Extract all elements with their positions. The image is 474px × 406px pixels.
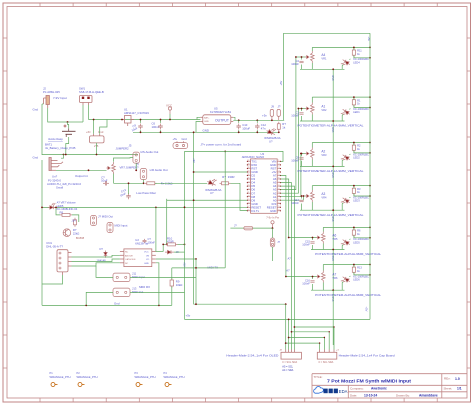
wire riser x166 <box>166 199 168 245</box>
junction x225 top <box>224 151 226 153</box>
svg-text:DHL-05-A-T?: DHL-05-A-T? <box>46 245 63 249</box>
svg-text:GND: GND <box>331 127 334 133</box>
frame tick left <box>3 169 7 171</box>
junction x196 bottom <box>195 303 197 305</box>
svg-text:BC808: BC808 <box>76 236 85 240</box>
jumper J7 <box>91 216 97 226</box>
svg-text:+5v: +5v <box>186 314 191 318</box>
capacitor C10 <box>236 124 241 130</box>
wire arduino d12 left <box>185 206 248 208</box>
frame tick bottom <box>304 398 306 402</box>
junction led 5 <box>353 227 355 229</box>
frame tick left <box>3 301 7 303</box>
svg-text:GND: GND <box>331 216 334 222</box>
resistor R9 <box>170 278 174 288</box>
wire switch left pin <box>82 105 84 122</box>
wire gnd chain bottom <box>332 290 334 345</box>
junction gnd C6 <box>160 131 162 133</box>
regulator U4 7805 <box>90 134 105 143</box>
junction y305 b <box>158 305 160 307</box>
pot block 5 rails <box>289 227 370 249</box>
svg-text:0 = SCL SDA: 0 = SCL SDA <box>319 361 334 364</box>
resistor R13 <box>352 265 355 274</box>
junction vcc below <box>272 227 274 229</box>
svg-text:19: 19 <box>247 199 249 201</box>
capacitor C8 <box>299 158 303 160</box>
svg-text:10uF: 10uF <box>101 179 108 183</box>
svg-text:MIDI Out: MIDI Out <box>132 290 143 294</box>
jumper J5 <box>133 152 140 163</box>
svg-text:9: 9 <box>278 188 279 190</box>
pin header J9 <box>270 109 273 120</box>
LED D5 midi <box>48 203 56 209</box>
regulator U1 AMS1117 <box>122 116 134 127</box>
svg-text:Header-Male-2.54_1x4 For OLED: Header-Male-2.54_1x4 For OLED <box>226 353 278 357</box>
svg-text:+5v: +5v <box>367 37 371 42</box>
junction pot1 wiper <box>301 56 303 58</box>
junction pot1 bundle <box>295 56 297 58</box>
svg-text:ARDUINO_NANO: ARDUINO_NANO <box>242 155 265 159</box>
frame tick left <box>3 268 7 270</box>
svg-text:100nF: 100nF <box>291 62 299 66</box>
svg-text:1/1: 1/1 <box>457 387 462 391</box>
potentiometer RV6 <box>316 271 325 283</box>
svg-text:3: 3 <box>278 167 279 169</box>
capacitor C4 <box>299 61 303 63</box>
wire branches to header2 <box>294 327 334 350</box>
svg-text:A1: A1 <box>321 105 325 109</box>
wire led branch 6 <box>342 265 370 291</box>
junction C13 <box>128 182 130 184</box>
diode D1 midi protection <box>104 251 107 258</box>
junction pot5 bundle <box>288 237 290 239</box>
wire gnd vertical to header <box>285 304 287 349</box>
wire mid rail x184 +9v <box>184 151 186 319</box>
resistor R1 <box>352 98 355 107</box>
wire C9 top <box>140 120 142 123</box>
frame tick left <box>3 202 7 204</box>
frame tick right <box>467 235 471 237</box>
svg-text:POTENTIOMETER-ALPHA-9MM_VERTIC: POTENTIOMETER-ALPHA-9MM_VERTICAL <box>315 293 381 297</box>
svg-text:WRANGLE_PTH: WRANGLE_PTH <box>50 375 71 379</box>
resistor R7 <box>277 122 280 132</box>
junction gnd C9 <box>140 131 142 133</box>
wire C12 top lead <box>256 120 258 123</box>
junction pot2 top <box>369 96 371 98</box>
svg-text:1.0: 1.0 <box>455 377 460 381</box>
svg-text:+IN: +IN <box>86 130 90 134</box>
svg-text:7 Pot Mozzi FM Synth w/MIDI In: 7 Pot Mozzi FM Synth w/MIDI Input <box>327 378 412 383</box>
svg-text:LED3: LED3 <box>353 199 360 203</box>
wire mid rail x196 <box>195 259 197 304</box>
pot block 3 rails <box>300 143 370 167</box>
svg-text:I2S Audio Out: I2S Audio Out <box>141 150 159 154</box>
junction gnd chain 4 <box>332 209 334 211</box>
switch SW1 <box>80 96 93 106</box>
junction x166 d2 <box>166 244 168 246</box>
svg-text:GND: GND <box>270 209 276 213</box>
svg-text:+5v: +5v <box>173 137 178 141</box>
wire C6 bot <box>160 130 162 132</box>
svg-text:LED5: LED5 <box>353 240 360 244</box>
audio jack J1 <box>49 158 63 171</box>
wire jack plus down <box>48 108 68 122</box>
DIN-5 connector CN1 <box>57 250 72 275</box>
frame tick right <box>467 169 471 171</box>
svg-text:CATHODE: CATHODE <box>125 258 136 261</box>
potentiometer RV4 <box>305 190 314 202</box>
svg-text:12: 12 <box>278 199 280 201</box>
svg-text:0 = SCL SDA: 0 = SCL SDA <box>282 361 297 364</box>
wire reg gnd down <box>96 143 98 155</box>
svg-text:A6: A6 <box>332 234 336 238</box>
junction U1 in <box>121 119 123 121</box>
frame tick left <box>3 37 7 39</box>
header H2 for cap board <box>317 350 337 360</box>
svg-text:P2: P2 <box>77 371 81 375</box>
junction C10 top <box>238 119 240 121</box>
svg-text:100nF: 100nF <box>291 114 299 118</box>
wire mid rail x193 gnd <box>193 132 195 304</box>
junction C10 bot <box>238 131 240 133</box>
junction opto vo <box>195 258 197 260</box>
resistor R2 <box>352 143 355 152</box>
wire VCC stub <box>169 114 171 120</box>
wire r8 right <box>72 215 79 222</box>
frame tick left <box>3 235 7 237</box>
CN1 pin circles <box>59 252 61 269</box>
wire battery minus lead <box>66 137 69 155</box>
svg-text:VO: VO <box>146 259 149 261</box>
wire arduino d11 left <box>167 199 247 201</box>
frame tick bottom <box>105 398 107 402</box>
barrel jack J2 <box>44 96 50 109</box>
svg-text:VR4: VR4 <box>321 195 327 199</box>
svg-text:17: 17 <box>247 206 249 208</box>
wire arduino analog fanout <box>281 57 296 190</box>
junction jack gnd feed <box>63 154 65 156</box>
svg-text:J9: J9 <box>271 105 274 109</box>
potentiometer RV5 <box>316 232 325 244</box>
junction C12 bot <box>256 131 258 133</box>
svg-text:J? MIDI Out: J? MIDI Out <box>98 215 113 219</box>
capacitor C7 <box>103 181 109 186</box>
wire r10 left <box>163 244 165 251</box>
junction y304 end <box>285 303 287 305</box>
junction pot5 top <box>369 227 371 229</box>
wire gnd chain 5 <box>332 250 334 291</box>
wire jack to VR7 <box>56 169 107 171</box>
svg-text:Gnd: Gnd <box>98 130 104 134</box>
frame tick bottom <box>205 398 207 402</box>
junction bat gnd <box>65 154 67 156</box>
wire lpf to led <box>155 182 207 184</box>
LED D7 power <box>266 126 277 136</box>
svg-text:POTENTIOMETER-ALPHA-9MM_VERTIC: POTENTIOMETER-ALPHA-9MM_VERTICAL <box>298 169 364 173</box>
svg-text:Low Pass Filter: Low Pass Filter <box>136 191 156 195</box>
frame tick bottom <box>238 398 240 402</box>
battery BAT1 <box>62 128 76 137</box>
junction gnd chain 3 <box>332 166 334 168</box>
junction reg in <box>93 119 95 121</box>
svg-text:J14: J14 <box>71 219 76 223</box>
svg-text:30: 30 <box>247 160 249 162</box>
svg-text:KC-1608LINC-04: KC-1608LINC-04 <box>57 207 78 211</box>
wire din pin4 <box>72 263 120 266</box>
junction pot4 wiper <box>301 195 303 197</box>
junction led rail 2 <box>369 107 371 109</box>
wire U5 out rail <box>233 119 284 121</box>
junction y305 a <box>85 305 87 307</box>
svg-text:+5V: +5V <box>183 262 187 267</box>
wire midi tx rail left <box>172 267 196 269</box>
frame tick top <box>138 3 140 7</box>
svg-text:LED2: LED2 <box>353 156 360 160</box>
svg-text:BAT+: BAT+ <box>204 116 210 119</box>
svg-text:NC: NC <box>125 252 129 254</box>
wire led branch 2 <box>342 97 370 121</box>
svg-text:7-9v In Pw: 7-9v In Pw <box>266 215 279 219</box>
junction midi tx <box>195 267 197 269</box>
svg-text:VR2: VR2 <box>321 108 327 112</box>
junction J6 out <box>143 182 145 184</box>
mounting hole 4 <box>165 383 172 387</box>
svg-text:MIDI RX: MIDI RX <box>139 285 150 289</box>
junction pot2 bundle <box>298 108 300 110</box>
wire din to opto cathode <box>72 259 120 262</box>
frame tick left <box>3 70 7 72</box>
wire right rail <box>369 33 371 319</box>
potentiometer VR7 <box>107 162 116 174</box>
frame tick bottom <box>271 398 273 402</box>
capacitor C1 <box>299 113 303 115</box>
wire midi tx rail <box>196 267 225 269</box>
resistor R11 <box>352 48 355 57</box>
LED LED4 <box>340 58 351 68</box>
frame tick right <box>467 103 471 105</box>
wire reg gnd riser <box>100 120 107 134</box>
frame tick bottom <box>39 398 41 402</box>
svg-text:WRANGLE_PTH: WRANGLE_PTH <box>77 375 98 379</box>
wire jumper J6 bottom <box>143 180 145 184</box>
wire din gnd down <box>42 275 63 284</box>
wire r5 to arduino <box>231 183 248 210</box>
svg-text:22: 22 <box>247 188 249 190</box>
junction pot6 top <box>369 264 371 266</box>
wire gnd rail left upper <box>41 104 43 155</box>
svg-text:VCC: VCC <box>144 252 149 254</box>
junction r10 left <box>162 244 164 246</box>
svg-text:6: 6 <box>278 178 279 180</box>
wire gnd rail y132 <box>133 131 279 133</box>
frame tick right <box>467 367 471 369</box>
junction y122 <box>67 121 69 123</box>
wire U5 out2 <box>233 117 235 120</box>
svg-text:+5V: +5V <box>279 80 283 85</box>
svg-text:27: 27 <box>247 171 249 173</box>
svg-text:100uF: 100uF <box>242 126 250 130</box>
svg-text:GND: GND <box>331 75 334 81</box>
frame tick left <box>3 136 7 138</box>
svg-text:REv:: REv: <box>444 377 451 381</box>
svg-text:Drawn By:: Drawn By: <box>396 393 410 397</box>
frame tick right <box>467 37 471 39</box>
wire gnd rail left lower <box>41 160 43 305</box>
mounting hole 1 <box>51 383 58 387</box>
junction pot3 bundle <box>300 153 302 155</box>
svg-text:25: 25 <box>247 178 249 180</box>
wire y119 main <box>89 119 201 121</box>
svg-text:GND: GND <box>203 128 209 132</box>
wire gnd rail y305 <box>42 304 172 306</box>
wire jack gnd feed <box>61 155 64 159</box>
wire +5v bottom rail <box>185 318 371 320</box>
junction led rail 6 <box>369 274 371 276</box>
svg-text:4xAA-Clasp: 4xAA-Clasp <box>48 137 63 141</box>
svg-text:18: 18 <box>247 202 249 204</box>
resistor R12 <box>74 218 77 227</box>
header H1 for OLED <box>281 350 301 360</box>
svg-text:VR7: VR7 <box>120 166 126 170</box>
easyeda logo glyphs <box>324 389 338 394</box>
svg-text:LED4: LED4 <box>353 60 360 64</box>
pin header J15 <box>270 228 275 247</box>
svg-text:GND: GND <box>204 121 209 123</box>
arduino nano U3 body <box>251 159 278 213</box>
wire opto vo out <box>156 258 196 260</box>
svg-text:A3: A3 <box>321 192 325 196</box>
capacitor C15 <box>310 242 314 244</box>
resistor R6 <box>352 228 355 237</box>
svg-text:J?: J? <box>278 105 281 109</box>
junction led 6 <box>353 264 355 266</box>
frame tick bottom <box>370 398 372 402</box>
VCC symbol below arduino <box>271 221 274 228</box>
svg-text:A7: A7 <box>332 273 336 277</box>
wire gnd chain 4 <box>332 210 334 249</box>
svg-text:20: 20 <box>247 195 249 197</box>
junction r8 led <box>55 207 57 209</box>
potentiometer RV2 <box>305 103 314 115</box>
svg-text:Company:: Company: <box>350 386 364 390</box>
frame tick top <box>205 3 207 7</box>
capacitor C14 <box>299 200 303 202</box>
wire arduino gnd left <box>194 171 248 173</box>
potentiometer RV3 <box>305 148 314 160</box>
frame tick top <box>370 3 372 7</box>
junction C9 top <box>140 119 142 121</box>
junction d11 gnd cross <box>193 199 195 201</box>
svg-text:Header-Male-2.54_1x4 For Cap B: Header-Male-2.54_1x4 For Cap Board <box>339 353 395 357</box>
wire gnd into hdr2 <box>331 345 333 350</box>
wire U5 gnd <box>196 122 200 133</box>
wire arduino vin <box>185 151 284 161</box>
wire din pin1 <box>72 252 120 253</box>
LED LED6 <box>340 275 351 285</box>
wire r9 bot <box>171 287 173 306</box>
junction pot6 wiper <box>312 276 314 278</box>
resistor R4 lpf <box>145 182 157 185</box>
wire mid rail x225 <box>224 151 226 268</box>
junction pot3 top <box>369 142 371 144</box>
svg-text:LED6: LED6 <box>353 278 360 282</box>
svg-text:POTENTIOMETER-ALPHA-9MM_VERTIC: POTENTIOMETER-ALPHA-9MM_VERTICAL <box>298 124 364 128</box>
wire y304 rail <box>194 303 286 305</box>
wire VR7 top <box>114 158 133 162</box>
wire j11 left <box>96 266 113 277</box>
junction gnd chain 2 <box>332 120 334 122</box>
frame tick top <box>271 3 273 7</box>
junction J5 out <box>135 169 137 171</box>
junction pot4 bundle <box>303 195 305 197</box>
svg-text:23: 23 <box>247 185 249 187</box>
svg-text:A5 = SCL: A5 = SCL <box>282 365 293 368</box>
svg-text:A7: A7 <box>286 269 290 273</box>
junction reg gnd <box>96 154 98 156</box>
frame tick bottom <box>138 398 140 402</box>
capacitor C16 <box>310 281 314 283</box>
junction pot4 top <box>369 185 371 187</box>
svg-text:KLT0504ZYH-B1: KLT0504ZYH-B1 <box>210 110 232 114</box>
junction led rail 1 <box>369 57 371 59</box>
frame tick top <box>39 3 41 7</box>
easyeda logo cloud <box>314 387 324 394</box>
frame tick left <box>3 334 7 336</box>
power module U5 <box>200 115 233 125</box>
frame tick bottom <box>171 398 173 402</box>
capacitor C13 <box>126 193 131 199</box>
junction pot5 wiper <box>312 237 314 239</box>
svg-text:+9V: +9V <box>192 158 196 163</box>
wire j13 right <box>130 291 185 293</box>
wire scl vertical <box>281 183 292 350</box>
frame tick bottom <box>72 398 74 402</box>
wire j11 right <box>130 276 196 278</box>
jumper J6 <box>140 169 147 180</box>
wire opto gnd <box>156 263 159 306</box>
wire C13 top <box>128 183 130 194</box>
svg-text:22kΩ: 22kΩ <box>73 231 79 235</box>
junction x193 top <box>193 131 195 133</box>
svg-text:4: 4 <box>278 171 279 173</box>
pin header J10 <box>277 109 280 120</box>
junction +5v bottom v2 <box>288 319 290 321</box>
svg-text:VR1: VR1 <box>321 56 327 60</box>
frame tick left <box>3 103 7 105</box>
svg-text:Gnd: Gnd <box>33 156 39 160</box>
svg-text:P1: P1 <box>50 371 54 375</box>
svg-text:29: 29 <box>247 164 249 166</box>
svg-text:Gnd: Gnd <box>114 301 120 305</box>
svg-text:A4 = SDA: A4 = SDA <box>282 369 293 372</box>
frame tick top <box>403 3 405 7</box>
svg-text:GND: GND <box>331 256 334 262</box>
jumper J4 power conn <box>173 141 188 148</box>
wire din to opto anode <box>72 255 120 257</box>
transistor Q1 <box>63 229 71 237</box>
resistor R8 <box>60 213 72 216</box>
svg-text:6N138-Tai: 6N138-Tai <box>135 241 148 245</box>
svg-text:+5V: +5V <box>365 307 369 312</box>
optocoupler U2 6N138 <box>120 249 156 267</box>
pot block 2 rails <box>298 97 370 121</box>
battery BAT1 plus sign <box>64 125 67 128</box>
svg-text:R8: R8 <box>60 211 64 215</box>
junction loop left <box>41 207 43 209</box>
frame tick bottom <box>403 398 405 402</box>
wire below pill <box>272 247 274 261</box>
svg-text:Amanddave: Amanddave <box>419 394 438 398</box>
